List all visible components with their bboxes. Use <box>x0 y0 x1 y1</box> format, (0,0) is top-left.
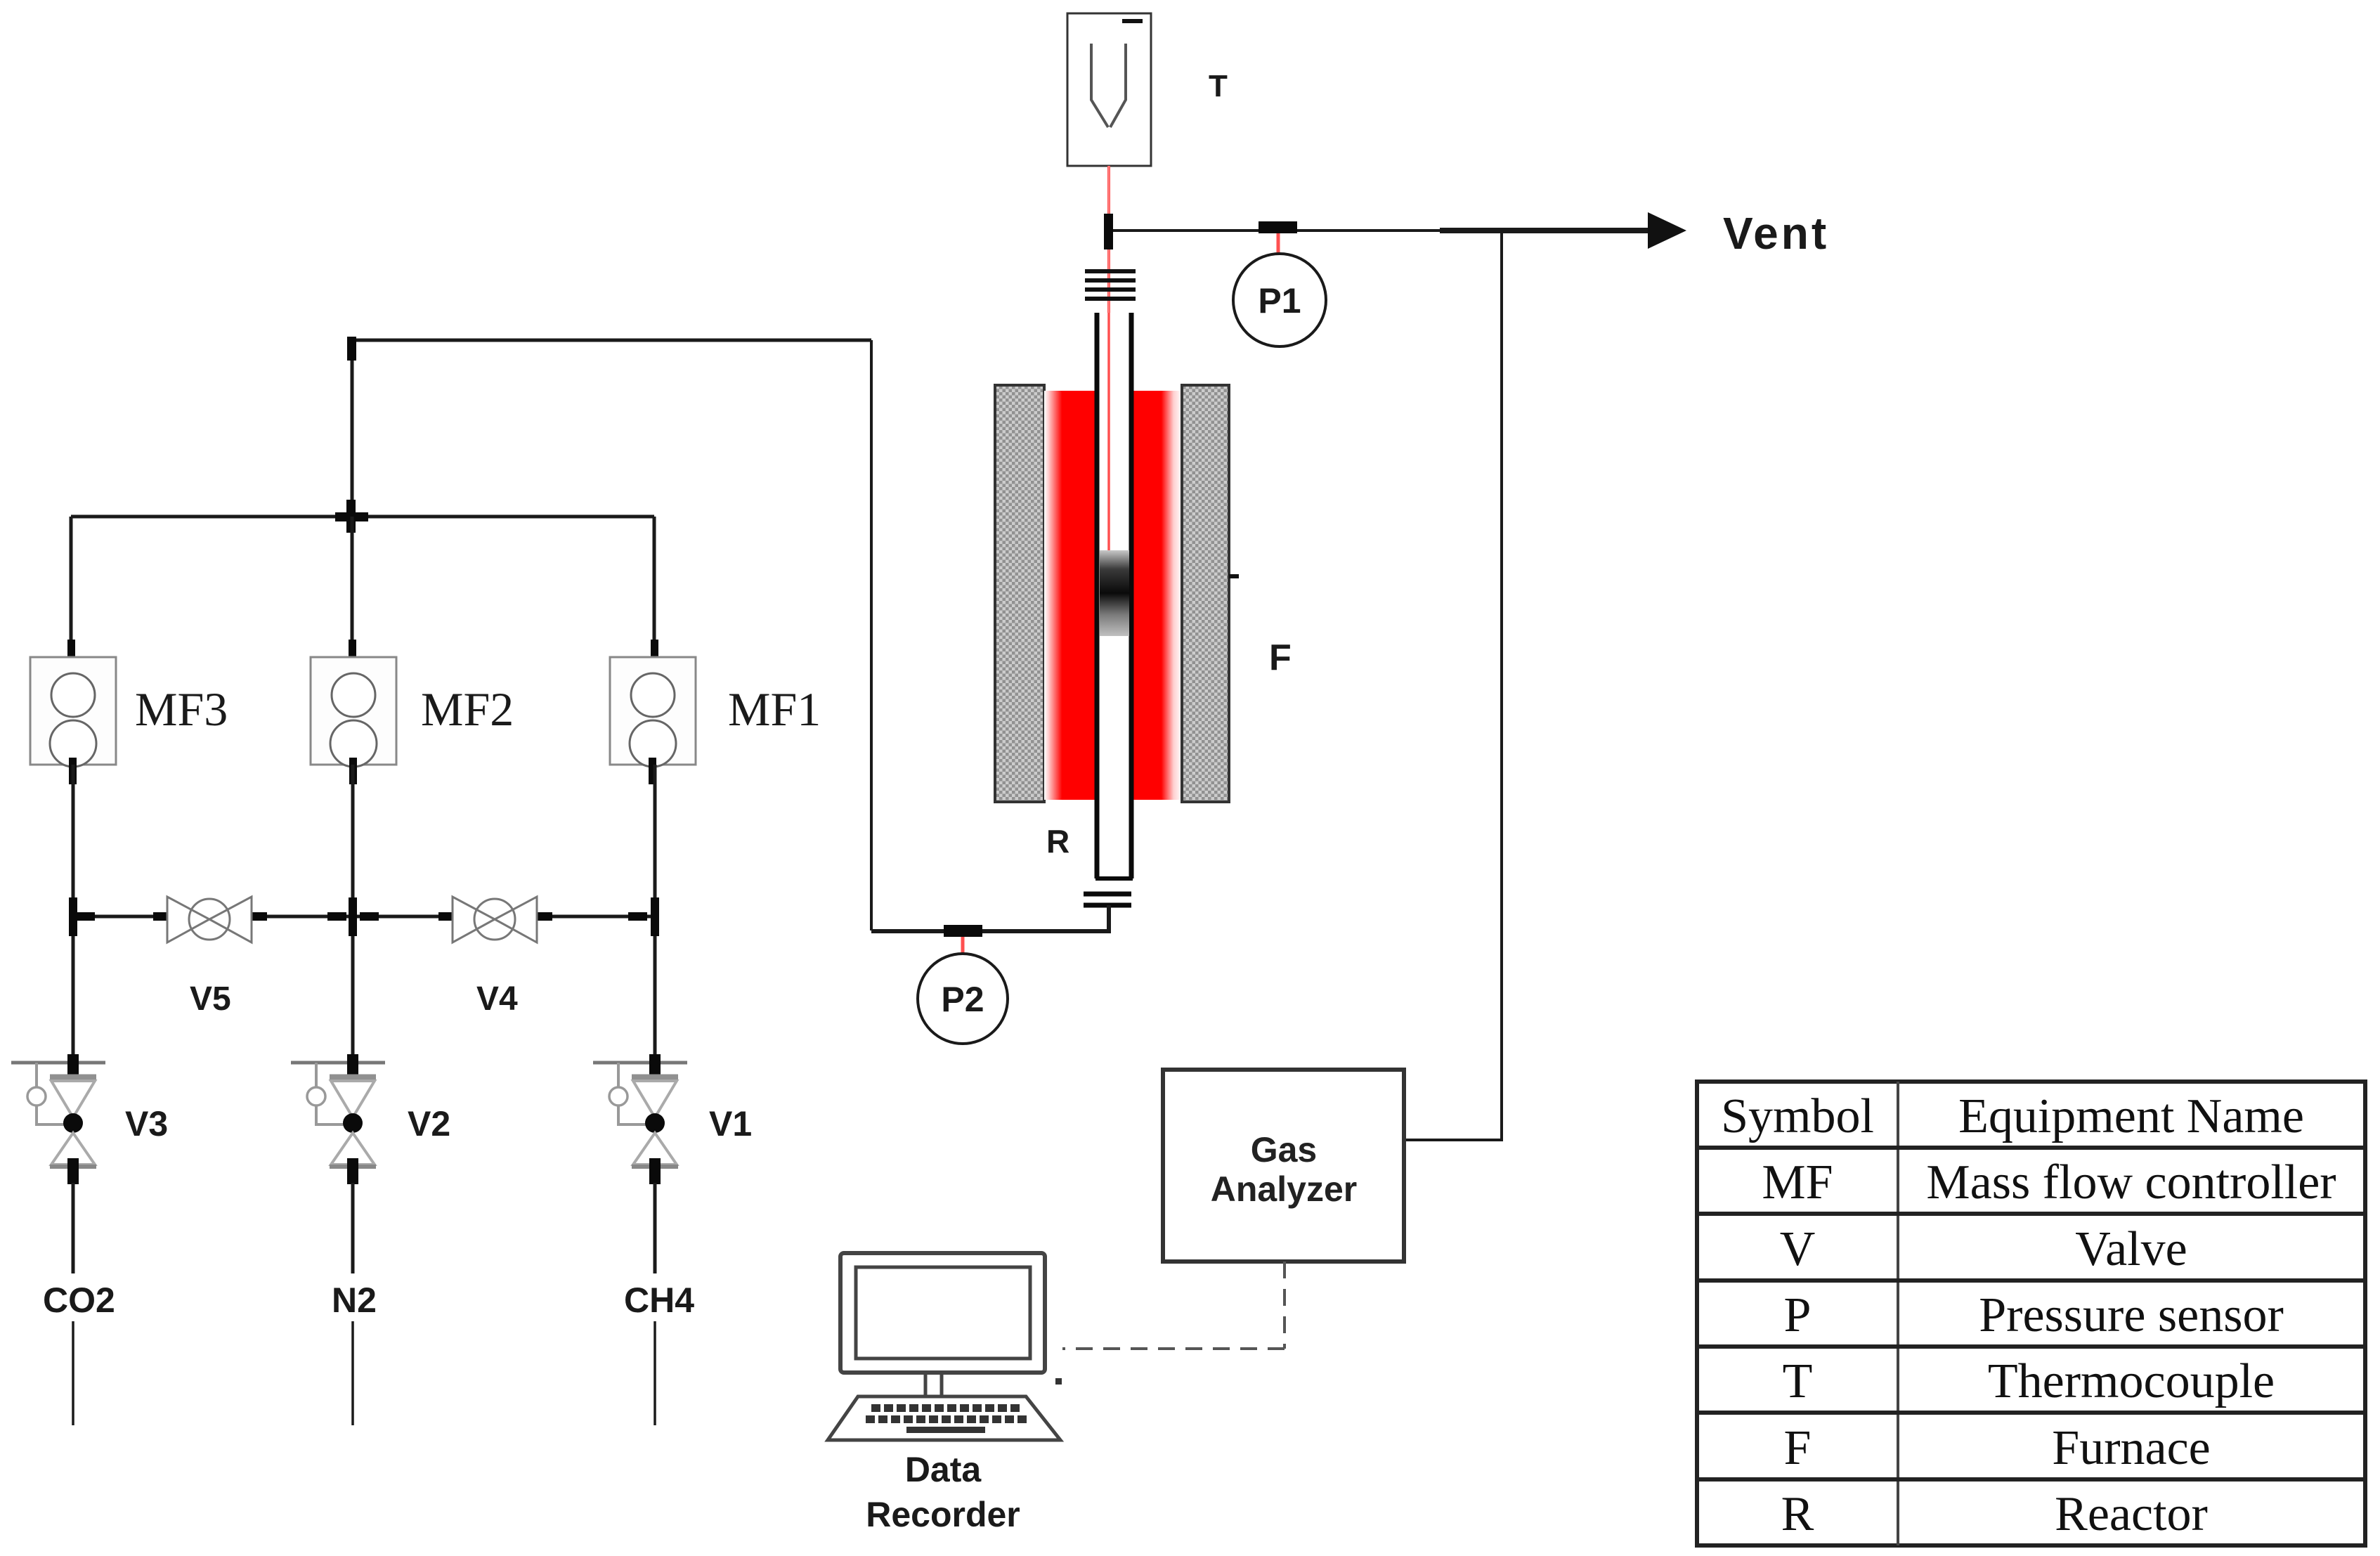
svg-text:F: F <box>1269 637 1292 678</box>
svg-text:MF: MF <box>1762 1155 1833 1210</box>
svg-text:CO2: CO2 <box>43 1281 115 1320</box>
furnace F side tick <box>1229 574 1239 578</box>
furnace heated zone glow <box>1044 391 1182 800</box>
wire drop to MF1 <box>653 517 656 661</box>
svg-text:T: T <box>1209 69 1228 103</box>
wire recycle riser <box>870 340 873 931</box>
mass flow controller MF1 <box>610 640 696 784</box>
wire MF header <box>71 515 654 519</box>
reactor top spring seal <box>1085 269 1136 301</box>
svg-text:F: F <box>1784 1421 1812 1475</box>
legend table <box>1697 1082 2365 1545</box>
data recorder monitor <box>840 1253 1045 1399</box>
node center junction ticks <box>327 897 379 936</box>
wire drop to MF2 <box>351 517 354 661</box>
svg-text:R: R <box>1046 823 1069 860</box>
node P2 tee <box>944 925 982 937</box>
wire valve crossover row <box>73 915 655 919</box>
svg-text:Analyzer: Analyzer <box>1211 1169 1357 1209</box>
vent arrowhead <box>1648 212 1686 249</box>
svg-text:Thermocouple: Thermocouple <box>1988 1354 2275 1408</box>
svg-text:V: V <box>1780 1222 1816 1276</box>
svg-text:P1: P1 <box>1258 281 1301 320</box>
thermocouple T box <box>1067 13 1151 166</box>
valve V3 <box>11 1054 105 1184</box>
valve V2 <box>291 1054 385 1184</box>
svg-text:Valve: Valve <box>2075 1222 2187 1276</box>
wire dashed data link <box>1062 1262 1285 1349</box>
wire red lead inside tube <box>1107 313 1110 604</box>
node right junction ticks <box>628 897 659 936</box>
wire drop to MF3 <box>70 517 73 661</box>
svg-text:Pressure sensor: Pressure sensor <box>1979 1288 2284 1342</box>
svg-text:V2: V2 <box>408 1104 450 1143</box>
wire CO2 inlet <box>72 1183 75 1273</box>
svg-text:Reactor: Reactor <box>2055 1487 2208 1541</box>
valve V4 <box>438 897 552 942</box>
svg-text:Furnace: Furnace <box>2052 1421 2210 1475</box>
svg-text:N2: N2 <box>332 1281 377 1320</box>
node P1 tee <box>1259 221 1297 233</box>
valve V1 <box>593 1054 687 1184</box>
svg-text:V1: V1 <box>709 1104 752 1143</box>
furnace F left insulation block <box>995 385 1044 802</box>
wire feed header top <box>352 339 871 342</box>
svg-text:Vent: Vent <box>1723 208 1829 259</box>
wire N2 inlet <box>351 1183 355 1273</box>
svg-text:MF2: MF2 <box>421 682 514 736</box>
pressure sensor P1 <box>1233 254 1326 346</box>
node cross junction <box>335 500 368 533</box>
svg-text:V4: V4 <box>476 980 518 1018</box>
node corner tick <box>347 337 356 361</box>
wire reactor outlet <box>871 905 1109 931</box>
wire vent branch down to gas analyzer <box>1404 231 1502 1140</box>
mass flow controller MF3 <box>30 640 116 784</box>
valve V5 <box>153 897 267 942</box>
reactor bottom fitting <box>1084 894 1131 905</box>
svg-text:CH4: CH4 <box>624 1281 694 1320</box>
svg-text:R: R <box>1781 1487 1814 1541</box>
svg-text:Mass flow controller: Mass flow controller <box>1926 1155 2336 1210</box>
legend table text <box>1721 1089 2336 1541</box>
wire red thermocouple lead <box>1107 166 1110 604</box>
gas analyzer box <box>1163 1070 1404 1262</box>
mass flow controller MF2 <box>311 640 396 784</box>
svg-text:Data: Data <box>905 1450 982 1489</box>
wire MF2 to valve row <box>351 765 355 1075</box>
svg-text:Gas: Gas <box>1251 1130 1318 1169</box>
node left junction ticks <box>69 897 95 936</box>
svg-text:V5: V5 <box>190 980 231 1018</box>
junction tick below thermocouple <box>1104 214 1113 249</box>
reactor R tube <box>1095 313 1133 880</box>
wire MF3 to valve row <box>72 765 75 1075</box>
svg-text:MF1: MF1 <box>728 682 821 736</box>
svg-text:Equipment Name: Equipment Name <box>1958 1089 2304 1143</box>
svg-text:V3: V3 <box>125 1104 168 1143</box>
svg-text:MF3: MF3 <box>135 682 228 736</box>
wire feed drop <box>351 340 354 517</box>
svg-text:P: P <box>1784 1288 1812 1342</box>
wire MF1 to valve row <box>653 765 657 1075</box>
svg-text:Symbol: Symbol <box>1721 1089 1874 1143</box>
svg-text:Recorder: Recorder <box>866 1495 1020 1534</box>
svg-text:T: T <box>1783 1354 1813 1408</box>
svg-text:P2: P2 <box>941 980 984 1019</box>
wire vent line <box>1109 229 1684 232</box>
wire CH4 inlet <box>653 1183 657 1273</box>
data recorder keyboard <box>828 1378 1062 1440</box>
pressure sensor P2 <box>918 954 1008 1044</box>
furnace F right insulation block <box>1182 385 1229 802</box>
reactor catalyst bed <box>1100 550 1129 636</box>
